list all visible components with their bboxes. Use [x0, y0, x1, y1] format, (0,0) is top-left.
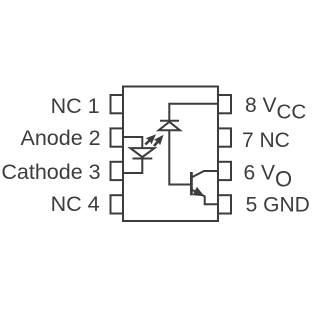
svg-text:Cathode 3: Cathode 3: [1, 160, 100, 184]
svg-text:NC 4: NC 4: [51, 192, 100, 216]
svg-text:8 VCC: 8 VCC: [245, 94, 306, 123]
svg-text:Anode 2: Anode 2: [20, 126, 100, 150]
svg-text:6 VO: 6 VO: [244, 161, 293, 191]
svg-text:5 GND: 5 GND: [246, 193, 310, 216]
svg-text:NC 1: NC 1: [51, 94, 100, 118]
svg-text:7 NC: 7 NC: [242, 129, 290, 152]
